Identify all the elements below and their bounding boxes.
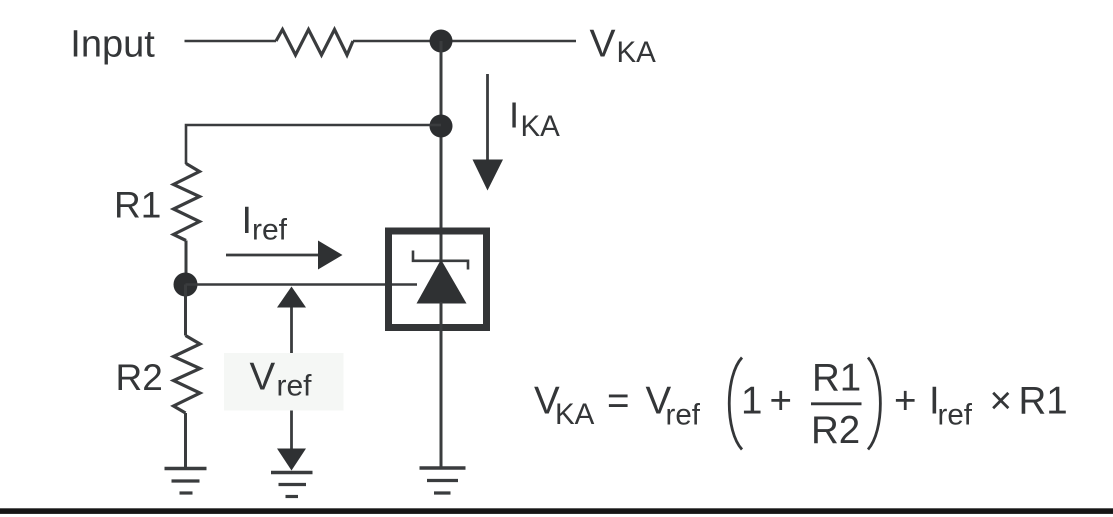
svg-text:I: I: [242, 200, 253, 242]
node R1 R2 junction: [174, 273, 198, 297]
wire cathode vertical: [440, 41, 443, 262]
bottom rule: [0, 508, 1113, 514]
svg-text:=: =: [607, 380, 629, 423]
resistor R1: [174, 164, 200, 241]
equation open parenthesis: [729, 358, 742, 450]
equation fraction bar: [811, 402, 862, 405]
highlight behind Vref: [224, 353, 344, 411]
arrow Vref up head: [277, 287, 306, 308]
wire resistor to VKA: [353, 40, 576, 43]
svg-text:R1: R1: [1019, 380, 1068, 423]
svg-text:1: 1: [741, 380, 762, 423]
wire input lead: [185, 40, 277, 43]
shunt regulator diode triangle: [417, 260, 467, 304]
equation VKA term: [534, 380, 595, 432]
resistor input series: [276, 30, 353, 56]
arrow Vref shaft: [290, 295, 293, 460]
wire anode to ground: [440, 302, 443, 468]
svg-text:KA: KA: [555, 398, 595, 431]
label VKA: [590, 23, 657, 70]
shunt regulator cathode bar: [413, 251, 468, 270]
svg-text:Input: Input: [70, 24, 155, 66]
wire R1 to junction: [185, 241, 188, 285]
svg-text:ref: ref: [666, 399, 701, 432]
svg-text:+: +: [770, 380, 792, 423]
svg-text:ref: ref: [252, 214, 288, 247]
node feedback junction: [430, 115, 453, 138]
label Vref: [250, 356, 313, 403]
ground Vref: [271, 473, 313, 497]
arrow Vref down head: [277, 449, 306, 471]
equation Vref term: [646, 380, 701, 432]
svg-text:ref: ref: [938, 399, 973, 432]
equation close parenthesis: [868, 358, 880, 450]
svg-text:ref: ref: [277, 370, 313, 403]
wire R2 top: [184, 285, 187, 336]
svg-text:R2: R2: [116, 357, 163, 398]
svg-text:KA: KA: [521, 110, 561, 143]
svg-text:×: ×: [990, 380, 1012, 423]
arrow IKA: [473, 74, 504, 191]
arrow Iref: [226, 241, 343, 270]
svg-text:R1: R1: [812, 357, 861, 400]
svg-text:R2: R2: [811, 409, 860, 452]
svg-text:+: +: [894, 380, 916, 423]
label Iref: [242, 200, 288, 247]
wire feedback to R1 top: [186, 125, 441, 164]
ground R2: [165, 469, 207, 494]
shunt regulator U1 box: [389, 231, 487, 328]
ground U1: [420, 468, 466, 493]
wire reference input: [186, 283, 418, 286]
svg-text:V: V: [590, 23, 616, 66]
resistor R2: [174, 336, 201, 414]
node cathode junction: [430, 30, 453, 53]
svg-text:R1: R1: [114, 185, 161, 226]
wire R2 to ground: [184, 413, 187, 469]
svg-text:V: V: [250, 356, 276, 399]
svg-text:KA: KA: [617, 36, 657, 69]
label IKA: [509, 95, 560, 144]
svg-text:I: I: [509, 95, 519, 136]
